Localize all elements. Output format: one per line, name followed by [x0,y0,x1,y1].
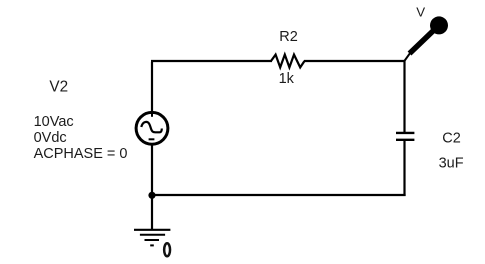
capacitor C2 (parallel plates) [396,133,414,140]
svg-text:0Vdc: 0Vdc [34,130,67,146]
svg-text:R2: R2 [279,29,298,45]
wire: right vertical, capacitor C2 bottom plate down to bottom wire [403,140,405,196]
svg-text:V: V [416,5,425,20]
resistor R2 (zigzag body) [271,55,305,68]
AC voltage source V2 (circle body with sine wave, + tick top, - dash bottom) [136,112,168,145]
voltage probe marker at node V (stick and bulb) [404,16,448,61]
label: ground net name 0 [164,243,170,256]
ground (earth symbol, net 0) [134,196,170,245]
svg-text:10Vac: 10Vac [34,114,74,130]
wire: top, source V2 top to resistor R2 left lead [151,60,272,62]
svg-text:C2: C2 [442,130,461,146]
wire: right vertical, top-right corner down to capacitor C2 top plate [403,60,405,133]
wire: left vertical, source V2 - terminal down to ground node [151,144,153,196]
junction: node where source V2, bottom return wire and ground meet [148,192,155,199]
svg-text:V2: V2 [49,79,68,96]
wire: top, resistor R2 right lead to top-right corner [304,60,405,62]
svg-text:ACPHASE = 0: ACPHASE = 0 [34,146,128,162]
svg-text:3uF: 3uF [439,155,464,171]
wire: left vertical, top wire down to source V2 + terminal [151,62,153,112]
svg-text:1k: 1k [279,71,295,87]
wire: bottom return, ground node to right vertical [152,194,406,196]
